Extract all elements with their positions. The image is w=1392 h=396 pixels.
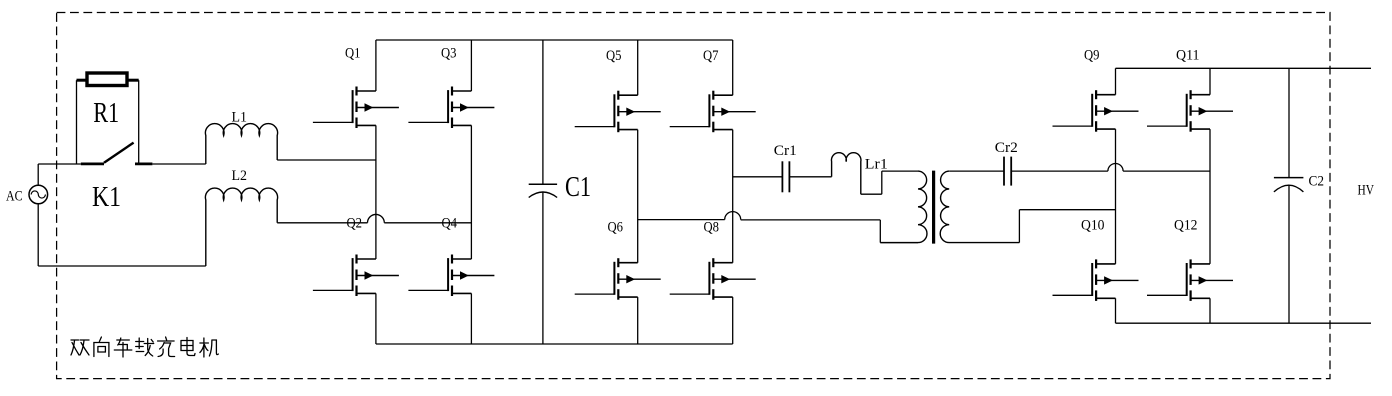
wire C1 top [542,40,544,184]
wire hop to leg2 [384,222,471,224]
wire hopover at leg1 [368,214,385,222]
svg-text:Q1: Q1 [345,46,361,62]
svg-text:K1: K1 [92,181,121,213]
wire HV top rail [1116,67,1372,69]
wire leg4 mid to Cr1 [733,176,783,178]
wire AC to K1 [38,163,81,165]
svg-text:Q7: Q7 [703,48,719,64]
transformer T1 primary winding [880,171,927,243]
wire HV bottom rail [1116,322,1372,324]
svg-text:Q5: Q5 [606,48,622,64]
inductor L1 [205,124,277,164]
svg-text:Q4: Q4 [442,216,458,232]
svg-text:Cr1: Cr1 [774,143,797,159]
transistor Q4 [408,255,494,297]
svg-text:Q9: Q9 [1084,48,1100,64]
svg-text:L1: L1 [232,110,248,126]
wire leg5 (Q9/Q10) [1115,68,1117,323]
wire hopover at leg4 [725,212,741,220]
wire secondary bottom [1019,210,1115,243]
wire C1 bottom [542,192,544,345]
wire K1 to L1 [152,163,205,165]
wire L1 to leg1 [277,159,376,161]
transistor Q5 [575,91,661,133]
transformer T1 core [932,171,935,244]
transistor Q3 [408,87,494,129]
capacitor Cr2 [1004,157,1011,186]
AC source [29,185,48,204]
wire C2 bottom [1288,186,1290,324]
wire AC top [37,164,39,185]
wire leg6 (Q11/Q12) [1209,68,1211,323]
wire R1 right tap [138,80,140,164]
wire to primary bottom [880,242,918,244]
wire Cr2 to hop [1011,170,1108,172]
wire leg4 (Q7/Q8) [732,40,734,344]
wire corner down [879,220,881,243]
svg-text:C1: C1 [565,171,591,203]
transistor Q2 [313,255,399,297]
svg-text:Lr1: Lr1 [865,157,888,173]
wire top rail (PFC bus +) [376,39,733,41]
wire hop to corner [741,219,881,221]
wire C2 top [1288,68,1290,177]
switch K1 [81,143,153,164]
transistor Q8 [670,258,756,300]
wire secondary top to Cr2 [949,170,1004,172]
transistor Q10 [1053,259,1139,301]
wire hop to leg6 mid [1123,170,1210,172]
svg-text:Cr2: Cr2 [995,140,1018,156]
wire R1 left tap [76,80,78,164]
capacitor C1 [529,184,557,197]
wire leg2 (Q3/Q4) [470,40,472,344]
svg-text:Q6: Q6 [608,220,624,236]
svg-text:Q2: Q2 [347,216,363,232]
svg-text:Q12: Q12 [1174,218,1198,234]
wire leg3 (Q5/Q6) [637,40,639,344]
svg-text:HV: HV [1358,183,1375,199]
wire L2 to hop [277,222,367,224]
wire hopover at leg5 [1108,164,1123,172]
wire leg1 (Q1/Q2) [375,40,377,344]
resistor R1 [77,73,139,86]
svg-text:Q3: Q3 [441,46,457,62]
svg-text:C2: C2 [1309,174,1325,190]
svg-text:Q11: Q11 [1176,48,1200,64]
transistor Q9 [1053,90,1139,132]
transistor Q6 [575,258,661,300]
inductor L2 [205,188,277,266]
wire Cr1 to Lr1 [789,176,831,178]
wire leg3 mid to hop [638,219,725,221]
svg-text:AC: AC [6,189,23,205]
transistor Q11 [1147,90,1233,132]
svg-text:L2: L2 [232,168,248,184]
wire bottom rail (PFC bus -) [376,343,733,345]
wire AC bottom [37,204,39,266]
inductor Lr1 [831,153,861,195]
wire Lr1 jog [861,171,918,194]
wire bottom to L2 [38,265,206,267]
transistor Q1 [313,87,399,129]
capacitor C2 [1274,178,1304,192]
transformer T1 secondary winding [940,171,1019,243]
capacitor Cr1 [782,161,789,192]
label caption: bidirectional on-board charger [71,337,218,357]
transistor Q12 [1147,259,1233,301]
transistor Q7 [670,91,756,133]
svg-text:Q10: Q10 [1081,218,1105,234]
svg-text:R1: R1 [93,97,119,129]
svg-text:Q8: Q8 [704,220,720,236]
